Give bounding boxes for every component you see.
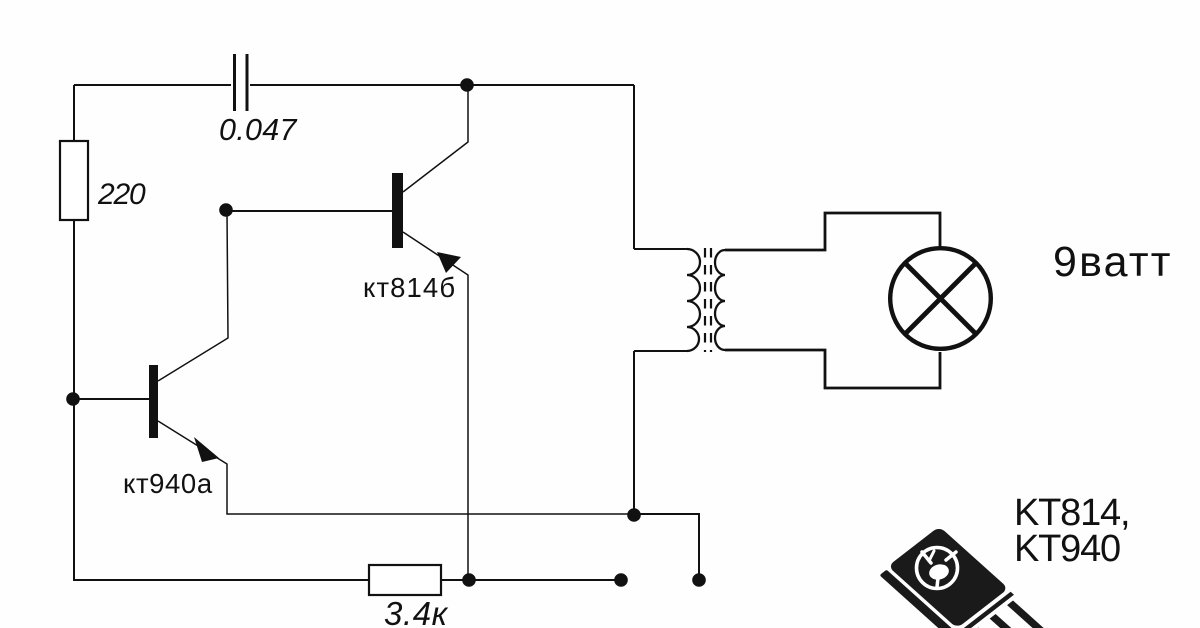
svg-text:0.047: 0.047 (219, 113, 298, 147)
svg-text:кт814б: кт814б (363, 272, 456, 303)
svg-text:3.4к: 3.4к (384, 595, 449, 628)
svg-text:KT940: KT940 (1014, 528, 1120, 570)
svg-text:кт940а: кт940а (123, 468, 213, 499)
svg-text:220: 220 (97, 178, 146, 211)
svg-text:9ватт: 9ватт (1053, 238, 1173, 286)
